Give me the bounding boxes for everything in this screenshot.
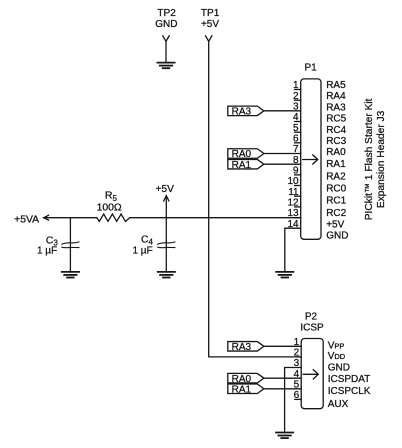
P1 pin 11 number — [288, 187, 299, 198]
svg-text:5: 5 — [293, 123, 299, 134]
svg-text:+5VA: +5VA — [14, 214, 39, 225]
P1 pin 7 name RA0 — [326, 147, 346, 158]
test point TP1 symbol — [206, 36, 212, 42]
P1 pin 1 number — [293, 80, 299, 91]
wire rail to C3 and C3 to ground — [69, 218, 71, 272]
svg-text:AUX: AUX — [328, 399, 349, 410]
svg-text:RA4: RA4 — [326, 91, 346, 102]
P1 pin 4 number — [293, 112, 299, 123]
svg-text:GND: GND — [155, 19, 177, 30]
connector P2 body — [301, 339, 323, 409]
svg-text:RA3: RA3 — [326, 102, 346, 113]
svg-text:6: 6 — [293, 133, 299, 144]
test point TP2 label — [155, 8, 177, 30]
svg-text:5: 5 — [294, 379, 300, 390]
ground (TP2) — [157, 63, 174, 69]
PICkit expansion header note (rotated) — [364, 98, 387, 220]
svg-text:RA0: RA0 — [232, 149, 252, 160]
P1 pin 5 name RC4 — [326, 125, 346, 136]
P1 pin 9 number — [293, 165, 299, 176]
P2 pin 5 stub — [264, 388, 301, 390]
P2 pin 2 number — [294, 348, 300, 359]
P1 pin 8 number — [293, 155, 299, 166]
svg-text:2: 2 — [294, 348, 300, 359]
P1 pin 14 name GND — [326, 231, 348, 242]
svg-text:ICSP: ICSP — [300, 322, 324, 333]
wire TP1 +5V down to P2 pin 2 — [209, 41, 302, 357]
+5V arrow — [164, 196, 169, 218]
P2 pin 3 number — [294, 358, 300, 369]
P2 pin 4 name ICSPDAT — [328, 374, 371, 385]
P2 internal arrow (pin 4 ICSPDAT) — [303, 370, 318, 379]
P1 pin 13 name +5V — [326, 219, 344, 230]
svg-text:7: 7 — [293, 144, 299, 155]
svg-text:9: 9 — [293, 165, 299, 176]
svg-text:P2: P2 — [305, 311, 318, 322]
capacitor C4 labels — [132, 235, 153, 257]
P2 pin 4 number — [294, 369, 300, 380]
P2 pin 2 stub — [296, 356, 301, 358]
P1 pin 2 name RA4 — [326, 91, 346, 102]
P1 pin 13 stub — [295, 217, 301, 219]
ground (C4) — [158, 272, 175, 278]
wire R5 to P1 pin 13 — [130, 217, 301, 219]
P1 pin 9 stub — [295, 174, 301, 176]
svg-text:P1: P1 — [304, 62, 317, 73]
P1 pin 3 name RA3 — [326, 102, 346, 113]
P1 pin 12 stub — [295, 206, 301, 208]
node +5VA label — [14, 214, 39, 225]
svg-text:+5V: +5V — [155, 184, 174, 195]
P2 pin 1 stub — [264, 345, 301, 347]
P1 pin 14 number — [287, 219, 299, 230]
svg-text:+5V: +5V — [326, 219, 344, 230]
svg-text:RA0: RA0 — [232, 374, 252, 385]
svg-text:VPP: VPP — [328, 340, 345, 351]
svg-text:RA3: RA3 — [232, 342, 252, 353]
P1 pin 8 name RA1 — [326, 159, 346, 170]
P2 pin 5 number — [294, 379, 300, 390]
svg-text:1 µF: 1 µF — [37, 246, 57, 257]
P2 pin 1 number — [294, 337, 300, 348]
svg-text:TP2: TP2 — [157, 8, 176, 19]
P1 pin 8 stub — [264, 163, 301, 165]
svg-text:RC2: RC2 — [326, 208, 346, 219]
svg-text:12: 12 — [287, 197, 299, 208]
P1 pin 4 name RC5 — [326, 114, 346, 125]
net flag RA0 — [228, 149, 264, 160]
svg-text:R5: R5 — [105, 190, 118, 203]
svg-text:1 µF: 1 µF — [132, 245, 152, 256]
connector P2 designator — [300, 311, 324, 333]
svg-text:ICSPCLK: ICSPCLK — [328, 386, 371, 397]
P1 pin 12 name RC2 — [326, 208, 346, 219]
svg-text:11: 11 — [288, 187, 299, 198]
svg-text:RC5: RC5 — [326, 114, 346, 125]
svg-text:GND: GND — [328, 363, 350, 374]
svg-text:RA2: RA2 — [326, 172, 346, 183]
svg-text:1: 1 — [293, 80, 299, 91]
P2 pin 6 number — [294, 390, 300, 401]
svg-text:RA3: RA3 — [232, 106, 252, 117]
P2 pin 6 name AUX — [328, 399, 349, 410]
P1 pin 7 number — [293, 144, 299, 155]
svg-text:RC4: RC4 — [326, 125, 346, 136]
P1 pin 14 stub — [285, 228, 301, 272]
connector P1 body — [301, 79, 321, 239]
net flag RA1 — [228, 384, 264, 395]
connector P1 designator — [304, 62, 317, 73]
net flag RA1 — [228, 159, 264, 170]
ground (C3) — [62, 272, 79, 278]
test point TP2 symbol — [163, 36, 169, 42]
svg-text:4: 4 — [293, 112, 299, 123]
wire +5VA to R5 — [44, 217, 97, 219]
P1 pin 2 stub — [295, 99, 301, 101]
P1 pin 11 name RC1 — [326, 196, 346, 207]
P2 pin 6 stub — [295, 398, 301, 400]
svg-text:+5V: +5V — [201, 19, 219, 30]
P1 pin 10 stub — [295, 185, 301, 187]
P1 pin 12 number — [287, 197, 299, 208]
P1 pin 11 stub — [295, 195, 301, 197]
P1 pin 10 name RC0 — [326, 183, 346, 194]
svg-text:VDD: VDD — [328, 351, 346, 362]
svg-text:2: 2 — [293, 91, 299, 102]
P1 pin 5 number — [293, 123, 299, 134]
svg-text:RA1: RA1 — [232, 384, 252, 395]
P1 pin 13 number — [287, 208, 299, 219]
svg-text:3: 3 — [293, 101, 299, 112]
P1 pin 3 stub — [264, 110, 301, 112]
test point TP1 label — [201, 8, 220, 30]
net flag RA3 — [228, 106, 264, 117]
P1 pin 10 number — [287, 176, 299, 187]
svg-text:4: 4 — [294, 369, 300, 380]
svg-text:14: 14 — [287, 219, 299, 230]
P1 pin 9 name RA2 — [326, 172, 346, 183]
P2 pin 5 name ICSPCLK — [328, 386, 371, 397]
ground (P1 pin 14) — [276, 272, 293, 278]
P2 pin 3 name GND — [328, 363, 350, 374]
svg-text:TP1: TP1 — [201, 8, 220, 19]
resistor R5 value labels — [97, 190, 122, 214]
P1 internal arrow (pin 8) — [303, 155, 318, 164]
svg-text:RC1: RC1 — [326, 196, 346, 207]
wire rail to C4 and C4 to ground — [165, 218, 167, 272]
P1 pin 7 stub — [264, 153, 301, 155]
capacitor C3 labels — [37, 236, 58, 257]
svg-text:100Ω: 100Ω — [97, 202, 122, 213]
svg-text:13: 13 — [287, 208, 299, 219]
wire TP2 to ground — [165, 41, 167, 62]
svg-text:1: 1 — [294, 337, 300, 348]
P1 pin 6 name RC3 — [326, 136, 346, 147]
P1 pin 4 stub — [295, 121, 301, 123]
svg-text:Expansion Header J3: Expansion Header J3 — [376, 110, 387, 208]
P1 pin 1 name RA5 — [326, 80, 346, 91]
svg-text:GND: GND — [326, 231, 348, 242]
node +5V power symbol — [155, 184, 174, 195]
svg-text:RA1: RA1 — [326, 159, 346, 170]
svg-text:ICSPDAT: ICSPDAT — [328, 374, 371, 385]
svg-text:RA0: RA0 — [326, 147, 346, 158]
P1 pin 1 stub — [295, 89, 301, 91]
net flag RA0 — [228, 373, 264, 384]
svg-text:RA5: RA5 — [326, 80, 346, 91]
resistor R5 — [97, 214, 130, 221]
P2 pin 2 name VDD — [328, 351, 346, 362]
P1 pin 6 number — [293, 133, 299, 144]
svg-text:3: 3 — [294, 358, 300, 369]
P1 pin 2 number — [293, 91, 299, 102]
svg-text:RA1: RA1 — [232, 160, 252, 171]
svg-text:RC3: RC3 — [326, 136, 346, 147]
svg-text:PICkit™ 1 Flash Starter Kit: PICkit™ 1 Flash Starter Kit — [364, 98, 375, 220]
svg-text:6: 6 — [294, 390, 300, 401]
capacitor C3 — [62, 242, 79, 248]
svg-text:8: 8 — [293, 155, 299, 166]
svg-text:RC0: RC0 — [326, 183, 346, 194]
net flag RA3 — [228, 342, 264, 353]
P2 pin 4 stub — [264, 377, 301, 379]
P2 pin 1 name VPP — [328, 340, 345, 351]
P2 pin 3 stub — [285, 368, 302, 433]
P1 pin 6 stub — [295, 142, 301, 144]
P1 pin 5 stub — [295, 131, 301, 133]
svg-text:10: 10 — [287, 176, 299, 187]
+5VA arrow head — [44, 215, 49, 220]
ground (P2 pin 3) — [276, 433, 293, 439]
capacitor C4 — [158, 242, 175, 248]
P1 pin 3 number — [293, 101, 299, 112]
